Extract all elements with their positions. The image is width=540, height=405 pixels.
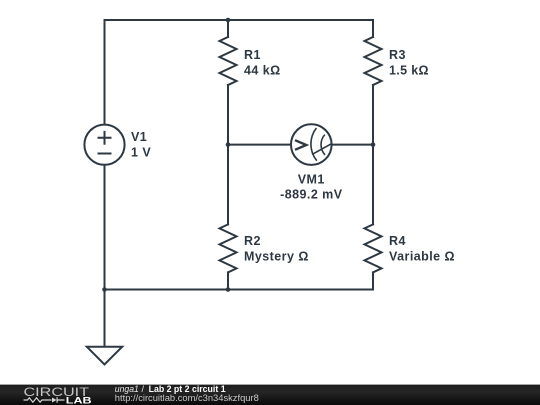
resistor R3 zigzag xyxy=(365,37,382,85)
CircuitLab logo resistor-diode glyph xyxy=(24,397,65,402)
svg-text:VM1: VM1 xyxy=(298,173,325,187)
wire left rail upper (top rail to V1 plus terminal) xyxy=(104,20,106,124)
node junction bottom (R2/bottom rail) xyxy=(226,287,231,292)
svg-text:Mystery Ω: Mystery Ω xyxy=(244,249,309,263)
svg-text:http://circuitlab.com/c3n34skz: http://circuitlab.com/c3n34skzfqur8 xyxy=(115,393,259,403)
wire top rail xyxy=(105,19,374,21)
svg-text:1.5 kΩ: 1.5 kΩ xyxy=(389,64,429,78)
node junction C (R3/R4/voltmeter) xyxy=(371,142,376,147)
svg-text:Variable Ω: Variable Ω xyxy=(389,249,455,263)
wire R3 top lead xyxy=(372,20,374,37)
voltage source V1 plus sign xyxy=(98,131,112,145)
ground symbol xyxy=(87,347,122,365)
wire middle rail left (node B to voltmeter) xyxy=(228,144,290,146)
svg-text:1 V: 1 V xyxy=(131,146,151,160)
resistor R1 zigzag xyxy=(220,37,237,85)
node junction B (R1/R2/voltmeter) xyxy=(226,142,231,147)
svg-text:V1: V1 xyxy=(131,130,147,144)
voltmeter VM1 dial arc inner xyxy=(321,135,325,155)
wire R2 bottom lead xyxy=(227,272,229,289)
resistor R2 zigzag xyxy=(220,224,237,272)
svg-text:R4: R4 xyxy=(389,234,406,248)
svg-text:-889.2 mV: -889.2 mV xyxy=(280,187,343,201)
node junction top (R1/top rail) xyxy=(226,18,231,23)
voltmeter VM1 needle xyxy=(312,144,331,155)
resistor R4 zigzag xyxy=(365,224,382,272)
svg-text:R2: R2 xyxy=(244,234,261,248)
wire ground lead xyxy=(104,290,106,347)
wire R1 bottom lead xyxy=(227,85,229,145)
wire middle rail right (voltmeter to node C) xyxy=(333,144,373,146)
voltage source V1 minus sign xyxy=(98,153,112,155)
voltage source V1 body xyxy=(84,125,124,165)
svg-text:LAB: LAB xyxy=(66,395,92,405)
wire R4 top lead xyxy=(372,145,374,225)
voltmeter VM1 body xyxy=(291,124,332,165)
voltmeter VM1 chevron xyxy=(295,140,306,150)
node junction bottom left (V1/ground/bottom rail) xyxy=(102,287,107,292)
wire left rail lower (V1 minus terminal to bottom rail) xyxy=(104,166,106,290)
voltmeter VM1 dial arc outer xyxy=(311,128,317,161)
wire R2 top lead xyxy=(227,145,229,225)
wire R1 top lead xyxy=(227,20,229,37)
wire R4 bottom lead xyxy=(372,272,374,289)
wire R3 bottom lead xyxy=(372,85,374,145)
svg-text:R1: R1 xyxy=(244,48,261,62)
svg-text:R3: R3 xyxy=(389,48,406,62)
svg-text:44 kΩ: 44 kΩ xyxy=(244,64,281,78)
wire bottom rail xyxy=(105,289,374,291)
